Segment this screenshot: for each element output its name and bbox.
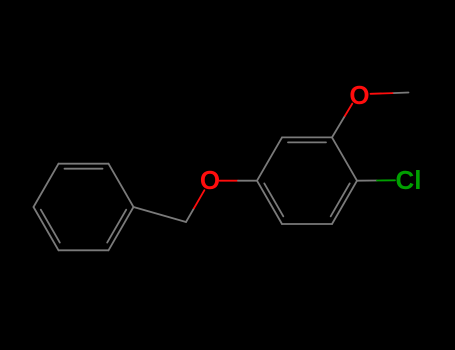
wire bond C6-C1 (BL-L): [257, 181, 282, 224]
wire bond C6'-C1' (BL-L): [34, 207, 59, 250]
wire bond C4-Cl green half: [377, 179, 395, 181]
svg-text:O: O: [200, 165, 220, 195]
wire bond C1-C2 (L-TL): [257, 137, 282, 180]
wire bond C3-OMe red half: [345, 104, 352, 116]
wire bond C3-C4 (TR-R): [332, 137, 357, 180]
wire bond OMe-CH3 red half: [371, 92, 393, 95]
double bond inner line lower-right edge ring 1: [107, 210, 126, 243]
wire bond O-C1 gray half: [238, 180, 257, 182]
wire bond CH2-O gray half: [186, 208, 194, 222]
chlorobenzene ring C1-C6 outer edges: [238, 93, 409, 225]
benzyl phenyl ring C1'-C6' outer edges: [34, 164, 195, 251]
wire bond C4'-C5' (R-BR): [109, 207, 134, 250]
wire bond ring1-CH2: [134, 207, 187, 222]
wire bond C2'-C3' (TL-TR top edge): [59, 163, 109, 165]
double bond inner line top edge ring 2: [288, 141, 326, 143]
methoxy oxygen red half bonds: [345, 93, 393, 116]
wire bond O-CH2 red half: [194, 190, 204, 208]
wire bond C2-C3 (TL-TR top edge): [282, 136, 332, 138]
wire bond C4-C5 (R-BR): [332, 181, 357, 224]
wire bond C5'-C6' (BR-BL bottom edge): [59, 249, 109, 251]
chlorine green half bond: [377, 179, 395, 181]
double bond inner line lower-left edge ring 2: [264, 183, 283, 216]
wire bond C3-OMe gray half: [332, 116, 345, 137]
wire bond C3'-C4' (TR-R): [109, 164, 134, 207]
double bond inner line top edge ring 1: [65, 168, 103, 170]
double bond inner line lower-left edge ring 1: [41, 210, 60, 243]
ether oxygen red half bonds: [194, 181, 238, 209]
svg-text:Cl: Cl: [396, 165, 422, 195]
wire bond C1'-C2' (L-TL): [34, 164, 59, 207]
svg-text:O: O: [349, 80, 369, 110]
wire bond C4-Cl gray half: [357, 180, 377, 182]
wire bond O-C1 red half: [220, 180, 239, 182]
wire bond OMe-CH3 gray half: [393, 92, 409, 95]
wire bond C5-C6 (BR-BL bottom edge): [282, 223, 332, 225]
double bond inner line lower-right edge ring 2: [331, 183, 350, 216]
